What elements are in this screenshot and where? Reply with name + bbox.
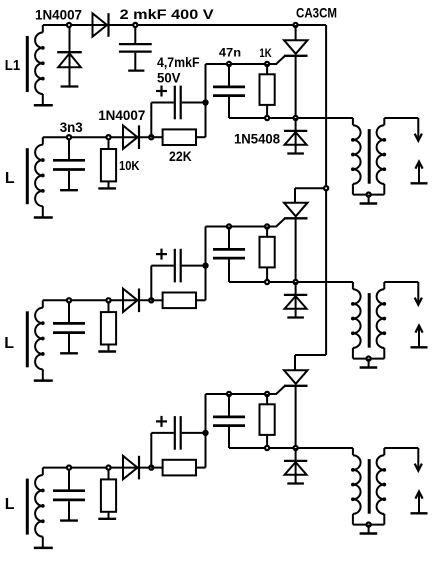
svg-text:10K: 10K xyxy=(119,159,140,173)
svg-text:50V: 50V xyxy=(157,69,181,85)
svg-text:L1: L1 xyxy=(5,57,20,74)
svg-text:3n3: 3n3 xyxy=(60,119,83,135)
svg-text:L: L xyxy=(5,170,15,187)
svg-text:L: L xyxy=(4,335,14,352)
svg-text:22K: 22K xyxy=(169,148,192,164)
svg-text:L: L xyxy=(5,496,15,513)
svg-text:1N5408: 1N5408 xyxy=(234,130,280,146)
svg-text:1N4007: 1N4007 xyxy=(35,6,82,22)
svg-text:4,7mkF: 4,7mkF xyxy=(157,54,200,70)
svg-text:CA3CM: CA3CM xyxy=(296,4,337,20)
svg-text:2 mkF 400 V: 2 mkF 400 V xyxy=(120,6,215,22)
svg-text:47n: 47n xyxy=(219,48,241,60)
svg-text:1K: 1K xyxy=(259,48,272,60)
svg-text:1N4007: 1N4007 xyxy=(98,107,145,123)
